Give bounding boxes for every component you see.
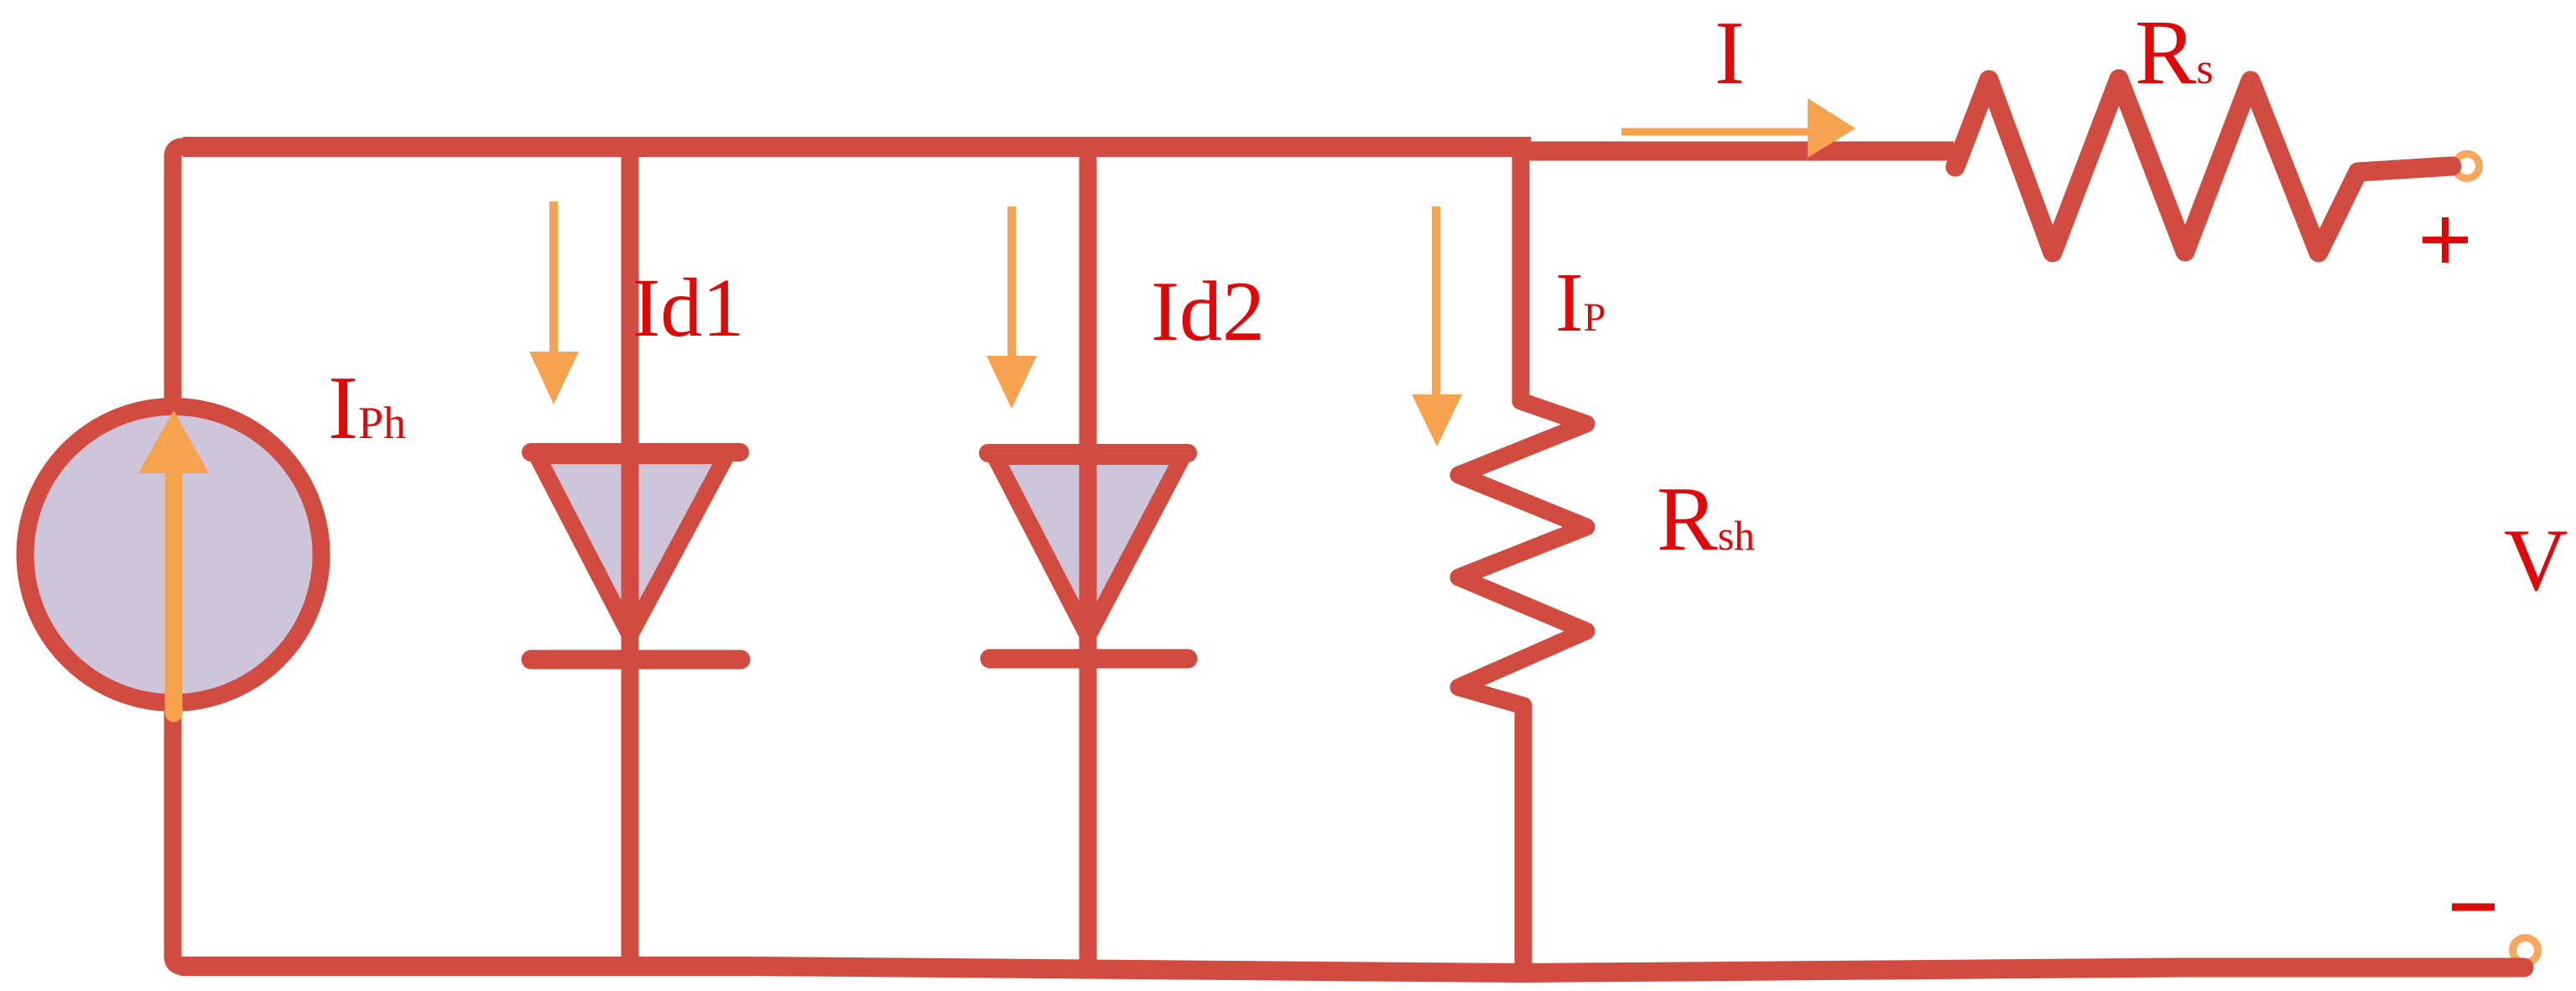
arrow I (orange, right) — [1621, 128, 1809, 136]
plus sign — [2422, 217, 2468, 263]
wire: top rail left section — [183, 137, 1531, 157]
terminal node + ring — [2455, 154, 2480, 179]
resistor Rsh (shunt) with branch wire — [1459, 148, 1586, 967]
terminal node - ring — [2513, 938, 2538, 963]
diode D2 top bar — [988, 444, 1188, 462]
svg-text:Rsh: Rsh — [1657, 468, 1755, 570]
arrow Id2 (orange, down) — [1007, 206, 1016, 357]
wire: top rail right section to Rs — [1521, 142, 1954, 161]
diode D2 cathode bar — [990, 649, 1188, 669]
diode D1 top bar — [531, 443, 740, 462]
svg-text:IPh: IPh — [328, 358, 406, 458]
diode D2 triangle — [995, 456, 1183, 636]
minus sign — [2452, 904, 2495, 911]
wire: left rail with rounded corners — [173, 147, 183, 967]
svg-text:I: I — [1715, 3, 1745, 103]
svg-text:Id1: Id1 — [632, 261, 744, 354]
current source arrow (orange, upward) — [165, 475, 183, 713]
resistor Rs (series) — [1955, 79, 2452, 253]
svg-text:Id2: Id2 — [1151, 264, 1265, 359]
svg-text:IP: IP — [1555, 255, 1605, 349]
svg-text:V: V — [2504, 511, 2568, 609]
wire: bottom rail — [183, 967, 2524, 973]
diode D1 triangle — [537, 456, 726, 635]
current source U1 circle — [25, 407, 321, 703]
arrow Id1 (orange, down) — [549, 201, 558, 352]
svg-text:Rs: Rs — [2135, 1, 2214, 103]
wire: diode1 branch — [622, 148, 639, 967]
arrow IP (orange, down) — [1432, 206, 1440, 396]
wire: diode2 branch — [1080, 148, 1097, 967]
diode D1 cathode bar — [531, 650, 741, 670]
